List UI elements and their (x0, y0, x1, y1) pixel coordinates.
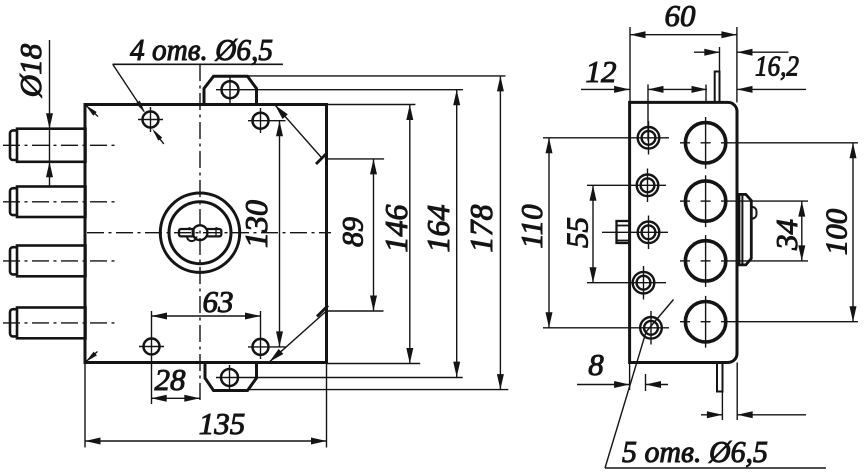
key cylinder inner circle (169, 202, 231, 264)
dim 8 (577, 384, 630, 386)
dim 16,2 upper row (694, 51, 720, 53)
svg-text:55: 55 (560, 217, 595, 248)
svg-text:8: 8 (588, 347, 604, 382)
bolt 3 centerline (3, 260, 118, 262)
bottom tab hole (221, 369, 238, 386)
bolt 3 (10, 246, 86, 277)
bottom tab hole crosshair + 164 extension (229, 365, 231, 390)
svg-text:63: 63 (203, 284, 234, 319)
svg-text:100: 100 (819, 208, 854, 255)
89 bottom bar (326, 310, 384, 312)
top tab hole crosshair + 164 extension line (229, 77, 231, 103)
svg-text:Ø18: Ø18 (13, 43, 48, 98)
60 extension right / plate right edge extended up (736, 27, 738, 102)
dim 28 (151, 397, 200, 399)
svg-text:178: 178 (463, 205, 499, 253)
dim 130 (279, 121, 281, 347)
second pointer arrow at hole A (154, 132, 164, 144)
svg-text:5 отв. Ø6,5: 5 отв. Ø6,5 (622, 434, 768, 469)
bolt 1 (10, 129, 86, 162)
svg-text:28: 28 (155, 362, 187, 397)
top stub (715, 72, 720, 103)
dim 110 (548, 138, 550, 328)
dia18 dimension line (49, 40, 51, 186)
label underline (605, 467, 826, 469)
bolt 4 centerline (3, 322, 118, 324)
8 right extension (645, 374, 647, 391)
svg-text:60: 60 (665, 0, 697, 33)
dim 135 (85, 440, 327, 442)
bottom mounting tab (205, 363, 257, 391)
svg-text:89: 89 (337, 217, 370, 247)
dim bottom-right (stub to plate edge) (701, 414, 722, 416)
screw hole C bottom-left (144, 339, 160, 355)
svg-text:130: 130 (238, 200, 274, 248)
leader to hole 5 (605, 300, 674, 469)
svg-text:135: 135 (199, 406, 246, 441)
svg-text:12: 12 (586, 54, 617, 89)
178 extension top (tab top edge extended) (247, 75, 506, 77)
label underline (113, 63, 283, 65)
89 bottom jog (270, 311, 327, 361)
svg-text:164: 164 (420, 205, 456, 253)
dim 12 (581, 88, 630, 90)
small hole 3 (638, 222, 660, 244)
bolt 2 (10, 187, 86, 218)
keyhole nub (187, 236, 196, 241)
small hole 4 (633, 272, 655, 294)
svg-text:16,2: 16,2 (755, 52, 799, 83)
oblique tick at 89 top bar (316, 153, 327, 164)
dim 100 (852, 143, 854, 322)
bolt 2 centerline (3, 201, 118, 203)
screw hole D bottom-right (253, 339, 269, 355)
latch nub (751, 207, 756, 219)
135 extension lines (84, 363, 86, 448)
bolt column centerline extension above plate (705, 85, 707, 103)
89 dimension line (373, 159, 375, 311)
dim 55 (592, 185, 594, 282)
dim 164 (456, 90, 458, 377)
oblique tick at 89 bottom bar (317, 306, 328, 317)
keyhole bar ticks (193, 230, 195, 237)
bolt circle 3 (685, 241, 725, 281)
89 top bar (325, 158, 384, 160)
screw hole B top-right (253, 113, 269, 129)
8 left extension (plate left edge extended down) (629, 363, 631, 391)
top mounting tab (204, 76, 257, 104)
vertical centerline of body (199, 64, 201, 404)
lock body outline (85, 105, 327, 363)
keyhole slot bar (179, 229, 221, 236)
small hole 5 (640, 317, 662, 339)
latch protrusion (737, 194, 751, 265)
corner arrow top-left (84, 103, 98, 116)
horizontal centerline through cylinder (87, 232, 331, 234)
bolt circle 4 (685, 302, 725, 342)
jogged dim 89 top jog (275, 105, 323, 159)
dim 146 (409, 105, 411, 364)
dim 178 (499, 76, 501, 390)
bolt circle 2 (685, 181, 725, 221)
146 extension top (body top edge extended) (327, 104, 416, 106)
svg-text:110: 110 (514, 204, 549, 249)
dim 63 (152, 315, 261, 317)
face plate outline (630, 102, 737, 362)
plate right edge extension down (736, 363, 738, 421)
leader to hole A (113, 64, 144, 111)
dim 34 (801, 201, 803, 261)
stub right edge extension down (721, 392, 723, 421)
bottom stub (717, 363, 723, 392)
screw hole A top-left (143, 112, 159, 128)
keyhole boss circle (193, 225, 208, 240)
dim 60 (630, 34, 737, 36)
small hole 2 (637, 175, 659, 197)
small hole 1 (638, 127, 660, 149)
svg-text:34: 34 (769, 219, 804, 251)
bolt 4 (10, 308, 86, 339)
stub right edge extension (719, 47, 721, 72)
svg-text:4 отв. Ø6,5: 4 отв. Ø6,5 (130, 32, 273, 67)
bolt 1 centerline (3, 144, 118, 146)
top tab hole (222, 81, 239, 98)
178 extension bottom (tab bottom edge extended) (249, 389, 508, 391)
146 extension bottom (body bottom edge extended) (327, 363, 421, 365)
12 right extension into hole 1 (647, 84, 649, 140)
dim row y89 (bolt centerline to plate edge) (648, 88, 707, 90)
bolt circle 1 (685, 123, 725, 163)
corner arrow bottom-left (84, 352, 98, 364)
60 extension left / plate left edge extended up (629, 27, 631, 102)
left box on plate edge (617, 221, 630, 243)
svg-text:146: 146 (378, 205, 414, 253)
key cylinder outer circle (160, 193, 239, 272)
